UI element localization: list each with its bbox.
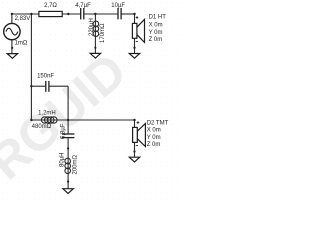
svg-text:1mΩ: 1mΩ [15, 40, 28, 46]
svg-text:170mΩ: 170mΩ [100, 23, 106, 43]
svg-text:10µF: 10µF [111, 3, 125, 9]
svg-text:2,83V: 2,83V [15, 16, 31, 22]
svg-text:Z 0m: Z 0m [147, 142, 161, 148]
svg-text:6,8µF: 6,8µF [61, 123, 67, 139]
svg-text:Y 0m: Y 0m [147, 135, 161, 141]
svg-text:X 0m: X 0m [149, 23, 163, 29]
svg-text:480mΩ: 480mΩ [32, 124, 52, 130]
svg-text:Y 0m: Y 0m [149, 30, 163, 36]
svg-text:D1 HT: D1 HT [149, 15, 167, 21]
svg-text:1,2mH: 1,2mH [38, 111, 56, 117]
svg-text:220µH: 220µH [89, 18, 95, 36]
svg-text:200mΩ: 200mΩ [73, 154, 79, 174]
svg-text:X 0m: X 0m [147, 128, 161, 134]
svg-text:2,7Ω: 2,7Ω [44, 3, 57, 9]
svg-text:Z 0m: Z 0m [149, 37, 163, 43]
svg-text:150nF: 150nF [37, 73, 54, 79]
svg-text:4,7µF: 4,7µF [75, 3, 91, 9]
svg-text:D2 TMT: D2 TMT [147, 120, 169, 126]
svg-text:80µH: 80µH [60, 153, 66, 167]
